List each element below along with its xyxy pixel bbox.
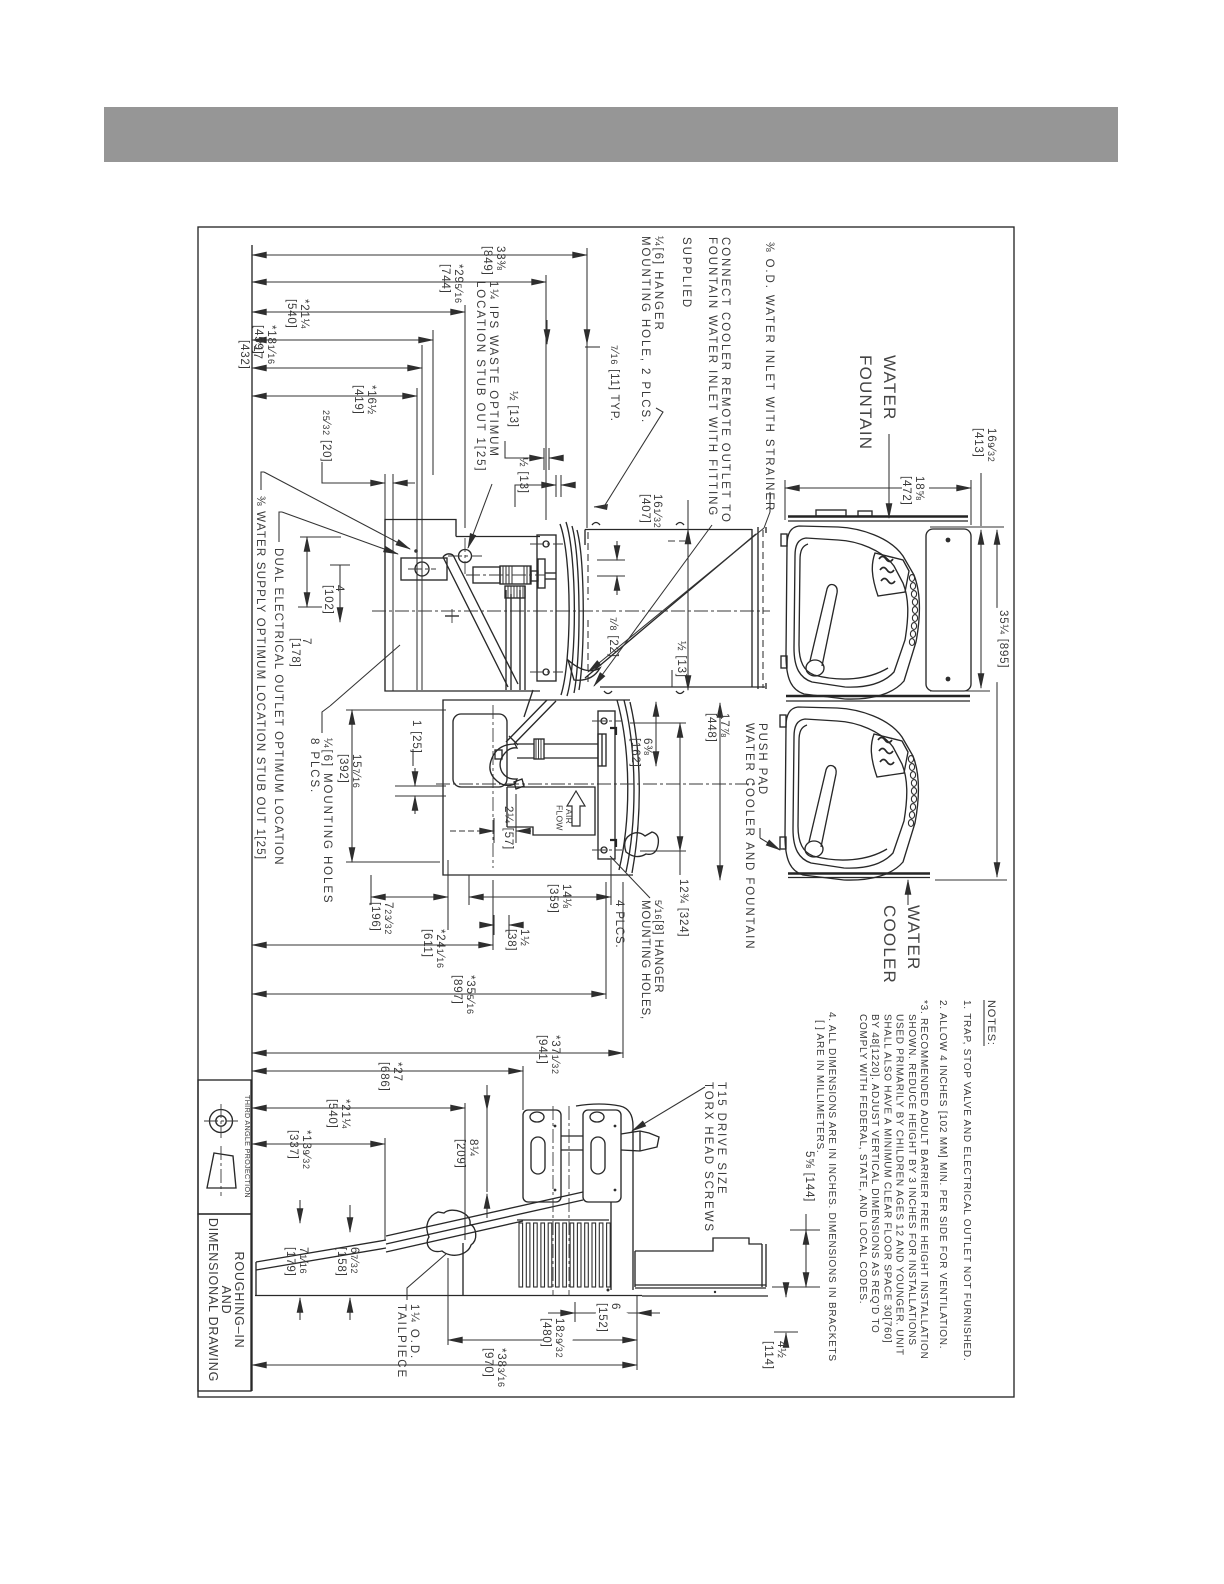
18-5/8 [472] bbox=[785, 487, 971, 489]
14-1/8 [359] bbox=[469, 896, 611, 898]
unit centerline bbox=[372, 610, 770, 612]
16-1/32 [407] vertical bbox=[687, 530, 689, 691]
svg-text:*3. RECOMMENDED ADULT BARRIER: *3. RECOMMENDED ADULT BARRIER FREE HEIGH… bbox=[857, 1000, 929, 1360]
outline left chamber bbox=[385, 520, 540, 692]
dim *27 [686] bbox=[252, 1070, 523, 1072]
dim *16-1/2 [419] bbox=[252, 395, 417, 397]
deck slant lines bbox=[386, 1192, 583, 1236]
svg-text:4[102]: 4[102] bbox=[322, 585, 345, 615]
svg-text:*16½[419]: *16½[419] bbox=[352, 385, 377, 415]
svg-text:17⅞[448]: 17⅞[448] bbox=[705, 713, 730, 743]
1-1/2 [38] bbox=[493, 915, 495, 935]
17-7/8 [448] bbox=[719, 703, 721, 880]
svg-text:*21¼[540]: *21¼[540] bbox=[326, 1099, 351, 1129]
dims around plan1 bbox=[505, 320, 690, 690]
svg-text:*27[686]: *27[686] bbox=[378, 1062, 403, 1092]
hanger bracket hidden strip (mid) bbox=[587, 532, 589, 600]
1 [25] bbox=[395, 785, 446, 787]
mounting panel bbox=[926, 529, 971, 691]
svg-text:71⁄16[179]: 71⁄16[179] bbox=[284, 1247, 309, 1277]
5/16[8] HANGER MOUNTING HOLES, 4 PLCS. bbox=[610, 856, 650, 898]
cross tick bbox=[445, 615, 459, 617]
svg-text:2. ALLOW 4 INCHES [102 MM] MIN: 2. ALLOW 4 INCHES [102 MM] MIN. PER SIDE… bbox=[937, 1000, 948, 1349]
svg-text:CONNECT COOLER REMOTE OUTLE: CONNECT COOLER REMOTE OUTLET TOFOUNTAIN … bbox=[680, 237, 731, 524]
dim *37-1/32 [941] bbox=[252, 1052, 623, 1054]
svg-text:*241⁄16[611]: *241⁄16[611] bbox=[421, 929, 446, 969]
textured strip bbox=[909, 575, 917, 646]
svg-text:PUSH PADWATER COOLER AND FOUNT: PUSH PADWATER COOLER AND FOUNTAIN bbox=[743, 723, 768, 950]
svg-text:*371⁄32[941]: *371⁄32[941] bbox=[536, 1035, 561, 1075]
fountain basin plan rectangle bbox=[585, 529, 752, 531]
svg-text:4. ALL DIMENSIONS ARE IN INCHE: 4. ALL DIMENSIONS ARE IN INCHES. DIMENSI… bbox=[814, 1012, 837, 1362]
dim *17 [432] bbox=[252, 367, 422, 369]
outer outline bbox=[443, 700, 633, 875]
labels: WATER FOUNTAIN / WATER COOLER / PUSH PAD bbox=[743, 355, 923, 984]
svg-text:*21¼[540]: *21¼[540] bbox=[285, 299, 310, 329]
svg-text:⅜ WATER SUPPLY OPTIMUM LOCATIO: ⅜ WATER SUPPLY OPTIMUM LOCATION STUB OUT… bbox=[254, 496, 266, 860]
curved back edges bbox=[617, 700, 628, 870]
svg-text:½ [13]: ½ [13] bbox=[517, 457, 529, 494]
tailpiece striped slip nut bbox=[534, 739, 544, 759]
svg-text:8¼[209]: 8¼[209] bbox=[454, 1139, 479, 1169]
dim *21-1/4 [540] bbox=[252, 311, 465, 313]
svg-text:⅜ O.D. WATER INLET WITH STRA: ⅜ O.D. WATER INLET WITH STRAINER bbox=[763, 242, 775, 512]
hanger bracket hidden strip (right) bbox=[762, 530, 764, 688]
push pad bbox=[872, 553, 909, 596]
bubbler projecting right bbox=[621, 1131, 659, 1151]
svg-text:12¾ [324]: 12¾ [324] bbox=[677, 879, 689, 937]
side view labels + dims bbox=[284, 1082, 820, 1379]
dim *18-1/16 [459] bbox=[252, 339, 433, 341]
18-29/32 [480] bbox=[447, 1258, 449, 1345]
svg-text:35¼ [895]: 35¼ [895] bbox=[997, 610, 1009, 668]
svg-text:67⁄32[158]: 67⁄32[158] bbox=[335, 1247, 360, 1277]
svg-text:¼[6] MOUNTING HOLES8 PLCS.: ¼[6] MOUNTING HOLES8 PLCS. bbox=[308, 738, 333, 904]
hook shape bottom bbox=[568, 660, 600, 680]
svg-text:33⅜[849]: 33⅜[849] bbox=[481, 246, 506, 276]
sheet border bbox=[198, 227, 1014, 1397]
7/8 [22] bbox=[597, 559, 625, 561]
dim *35-5/16 [897] bbox=[252, 993, 606, 995]
12-3/4 [324] bbox=[679, 723, 681, 851]
7 [178] dim bbox=[306, 537, 308, 607]
svg-text:1½[38]: 1½[38] bbox=[505, 929, 530, 951]
svg-text:DUAL ELECTRICAL OUTLET OPTIMUM: DUAL ELECTRICAL OUTLET OPTIMUM LOCATION bbox=[272, 548, 284, 866]
mounting plate edge-on bbox=[537, 535, 556, 681]
svg-text:THIRD ANGLE PROJECTION: THIRD ANGLE PROJECTION bbox=[243, 1095, 252, 1198]
supply tubes diagonals bbox=[506, 700, 547, 742]
7-1/16 [179] bbox=[299, 1200, 301, 1223]
lower channel bar bbox=[635, 1238, 762, 1251]
AIR FLOW arrow bbox=[567, 791, 585, 826]
svg-text:1829⁄32[480]: 1829⁄32[480] bbox=[540, 1318, 565, 1358]
6-3/8 [162] bbox=[655, 702, 657, 766]
svg-text:1. TRAP, STOP VALVE AND ELECTR: 1. TRAP, STOP VALVE AND ELECTRICAL OUTLE… bbox=[961, 1000, 972, 1361]
svg-text:7⁄16 [11] TYP.: 7⁄16 [11] TYP. bbox=[608, 345, 620, 422]
svg-text:5⁄16[8] HANGERMOUNTING HOLES,4: 5⁄16[8] HANGERMOUNTING HOLES,4 PLCS. bbox=[613, 900, 664, 1020]
third angle projection symbol bbox=[210, 1110, 233, 1133]
6-7/32 [158] bbox=[349, 1205, 351, 1232]
mounting plate bbox=[598, 711, 615, 859]
svg-text:*17[432]: *17[432] bbox=[238, 340, 263, 370]
svg-text:2¼ [57]: 2¼ [57] bbox=[502, 806, 514, 850]
dim *24-1/16 [611] bbox=[252, 944, 493, 946]
dim *13-9/32 [337] bbox=[252, 1143, 385, 1145]
svg-text:AIRFLOW: AIRFLOW bbox=[555, 805, 575, 831]
cabinet top arc bbox=[576, 1104, 633, 1126]
svg-text:*139⁄32[337]: *139⁄32[337] bbox=[287, 1130, 312, 1170]
2-1/4 [57] bbox=[493, 818, 495, 843]
8-1/4 [209] bbox=[486, 1085, 488, 1110]
svg-text:1 [25]: 1 [25] bbox=[410, 720, 422, 754]
supply stub dot bbox=[414, 549, 418, 553]
small step details on top edge bbox=[584, 530, 586, 546]
svg-text:ROUGHING–INANDDIMENSIONAL DRA: ROUGHING–INANDDIMENSIONAL DRAWING bbox=[206, 1218, 246, 1382]
svg-text:14⅛[359]: 14⅛[359] bbox=[547, 884, 572, 914]
svg-text:1¼ IPS WASTE OPTIMUMLOCATIO: 1¼ IPS WASTE OPTIMUMLOCATION STUB OUT 1[… bbox=[474, 281, 499, 473]
inner plenum contour bbox=[453, 714, 507, 787]
svg-text:WATERCOOLER: WATERCOOLER bbox=[880, 905, 923, 984]
7-23/32 [196] bbox=[371, 896, 448, 898]
svg-text:25⁄32 [20]: 25⁄32 [20] bbox=[320, 410, 332, 462]
bubbler arm in plan (diagonal) bbox=[443, 557, 508, 687]
svg-text:723⁄32[196]: 723⁄32[196] bbox=[369, 902, 394, 935]
6 [152] bbox=[574, 1302, 576, 1322]
middle rims bbox=[786, 695, 970, 697]
4 [102] dim bbox=[339, 565, 341, 622]
svg-text:T15 DRIVE SIZETORX HEAD SC: T15 DRIVE SIZETORX HEAD SCREWS bbox=[702, 1082, 727, 1233]
dim 33-3/8 [849] bbox=[252, 254, 587, 256]
svg-text:161⁄32[407]: 161⁄32[407] bbox=[639, 494, 663, 529]
7/16 [11] TYP hanger holes bbox=[546, 320, 548, 344]
trap blob bbox=[427, 1210, 476, 1255]
svg-text:6⅜[162]: 6⅜[162] bbox=[629, 738, 653, 768]
waste circle bbox=[459, 550, 472, 563]
top rim bbox=[788, 515, 968, 517]
svg-text:*383⁄16[970]: *383⁄16[970] bbox=[482, 1348, 507, 1388]
arm channel verticals bbox=[505, 590, 507, 690]
curved basin front edges bbox=[560, 524, 569, 695]
dim *29-5/16 [744] bbox=[252, 281, 546, 283]
valve cartridge assembly bbox=[473, 567, 500, 583]
dim 25/32 [20] gap bbox=[384, 474, 386, 691]
centerlines bbox=[552, 1106, 554, 1296]
35-1/4 [895] bbox=[996, 530, 998, 877]
svg-text:169⁄32[413]: 169⁄32[413] bbox=[972, 428, 997, 463]
bubbler spout (right) bbox=[625, 832, 659, 857]
16-9/32 [413] bbox=[980, 530, 982, 688]
trap: J hook bbox=[490, 744, 517, 785]
left tabs bbox=[781, 534, 787, 546]
svg-text:5⅝ [144]: 5⅝ [144] bbox=[803, 1151, 815, 1202]
svg-text:4½[114]: 4½[114] bbox=[762, 1341, 787, 1370]
front vertical + lower left bbox=[462, 1243, 464, 1295]
dim *21-1/4 [540] lower bbox=[252, 1107, 465, 1109]
svg-text:*355⁄16[897]: *355⁄16[897] bbox=[451, 975, 476, 1015]
bottom rim bbox=[788, 872, 930, 874]
grille bars bbox=[517, 1219, 609, 1221]
svg-text:157⁄16[392]: 157⁄16[392] bbox=[337, 754, 362, 789]
front view dims bbox=[785, 428, 1009, 880]
centerline bbox=[436, 783, 760, 785]
dim *38-3/16 [970] bbox=[252, 1364, 637, 1366]
extension lines bbox=[930, 526, 1004, 528]
svg-text:½ [13]: ½ [13] bbox=[675, 641, 687, 678]
svg-text:½ [13]: ½ [13] bbox=[507, 391, 519, 428]
svg-text:*295⁄16[744]: *295⁄16[744] bbox=[439, 264, 464, 304]
mounting plate 1 bbox=[523, 1110, 561, 1202]
svg-text:WATERFOUNTAIN: WATERFOUNTAIN bbox=[856, 355, 899, 450]
outlet circle bbox=[415, 562, 429, 576]
basin 1 (fountain) shell bbox=[781, 526, 920, 699]
bubbler arm bbox=[806, 660, 824, 676]
4-1/2 [114] bbox=[785, 1286, 787, 1297]
svg-text:¼[6] HANGERMOUNTING HOLE, 2: ¼[6] HANGERMOUNTING HOLE, 2 PLCS. bbox=[639, 236, 664, 424]
svg-text:NOTES:: NOTES: bbox=[985, 1000, 997, 1046]
electrical outlet box bbox=[401, 558, 447, 580]
floor baseline (landscape floor) bbox=[251, 245, 253, 1391]
svg-text:7[178]: 7[178] bbox=[289, 638, 312, 668]
mounting plate 2 bbox=[583, 1110, 621, 1202]
svg-text:1¼ O.D.TAILPIECE: 1¼ O.D.TAILPIECE bbox=[395, 1304, 420, 1379]
connector between plates bbox=[561, 1135, 583, 1137]
15-7/16 [392] bbox=[351, 710, 353, 862]
basin 2 (cooler) shell bbox=[780, 707, 919, 880]
big diagonal braces bbox=[585, 534, 756, 678]
